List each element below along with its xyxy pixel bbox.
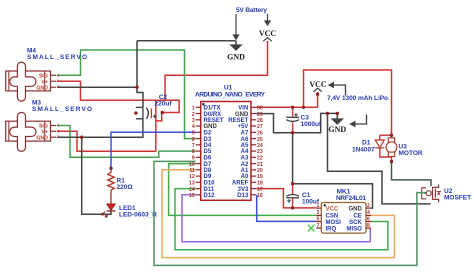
pin 1 VCC [316, 207, 321, 209]
wire black GND from servos up to battery ground [136, 41, 138, 87]
pin 5 MOSI [316, 221, 321, 223]
pin 1 D1/TX [196, 106, 201, 108]
node C2 negative plate [134, 111, 137, 114]
pin 30 VIN [251, 106, 256, 108]
wire black GND trunk to NRF [293, 133, 373, 208]
junction M3 GND / LED ground loop [80, 136, 83, 139]
svg-text:CE: CE [353, 214, 361, 220]
svg-text:13: 13 [189, 181, 195, 187]
pin 19 A0 [251, 175, 256, 177]
svg-text:3: 3 [57, 85, 59, 89]
svg-text:GND: GND [36, 135, 48, 141]
svg-text:VCC: VCC [326, 206, 339, 212]
svg-text:A6: A6 [241, 137, 249, 143]
node R1 top / D2 wire [109, 167, 112, 170]
wire motor to MOSFET drain [392, 162, 432, 187]
svg-text:1N4007: 1N4007 [352, 147, 375, 154]
pin 8 D5 [196, 150, 201, 152]
svg-text:29: 29 [257, 112, 263, 118]
svg-text:MOTOR: MOTOR [399, 150, 423, 157]
svg-text:A4: A4 [241, 149, 249, 155]
svg-text:AREF: AREF [232, 181, 249, 187]
wire dark green MOSFET gate from D7 [154, 161, 426, 265]
svg-text:220uf: 220uf [155, 101, 173, 108]
wire green CSN from D7 [169, 164, 317, 216]
svg-text:23: 23 [257, 149, 263, 155]
wire black MOSFET source to GND [328, 113, 431, 203]
svg-text:26: 26 [257, 131, 263, 137]
VCC supply symbol (battery) [259, 29, 277, 41]
svg-text:5V Battery: 5V Battery [236, 7, 267, 14]
svg-text:A2: A2 [241, 162, 249, 168]
junction GND line / C3 bottom [291, 131, 294, 134]
svg-text:28: 28 [257, 118, 263, 124]
svg-text:15: 15 [189, 193, 195, 199]
pin 2 GND [366, 207, 371, 209]
svg-text:6: 6 [367, 216, 370, 222]
svg-text:1: 1 [57, 124, 59, 128]
svg-text:30: 30 [257, 106, 263, 112]
svg-text:D9: D9 [204, 174, 212, 180]
pin 17 3V3 [251, 188, 256, 190]
wire black arduino GND to battery ground [256, 113, 337, 132]
svg-text:2: 2 [57, 129, 59, 133]
pin 6 SCK [366, 221, 371, 223]
wire black M4 GND [57, 87, 143, 107]
svg-text:SCK: SCK [349, 220, 362, 226]
junction VIN rail / motor riser [302, 106, 305, 109]
svg-text:17: 17 [257, 187, 263, 193]
pin 6 D3 [196, 138, 201, 140]
wire red V+ rail to M4 and down to C2 plus [57, 81, 179, 112]
svg-text:2: 2 [192, 112, 195, 118]
capacitor C3 [286, 107, 322, 132]
svg-text:25: 25 [257, 137, 263, 143]
svg-text:5: 5 [317, 216, 320, 222]
svg-text:1000uf: 1000uf [301, 121, 322, 128]
pin 16 D13 [251, 194, 256, 196]
svg-text:20: 20 [257, 168, 263, 174]
svg-text:1: 1 [317, 203, 320, 209]
svg-text:MOSFET: MOSFET [444, 195, 471, 202]
junction C1 bottom / NRF VCC wire [291, 206, 294, 209]
pin 28 RESET [251, 119, 256, 121]
pin 2 D0/RX [196, 113, 201, 115]
svg-text:8: 8 [192, 149, 195, 155]
svg-text:1: 1 [192, 106, 195, 112]
svg-text:3V3: 3V3 [238, 187, 249, 193]
svg-text:24: 24 [257, 143, 263, 149]
svg-text:A0: A0 [241, 174, 249, 180]
pin 12 D9 [196, 175, 201, 177]
svg-text:D11: D11 [204, 187, 215, 193]
svg-text:D4: D4 [204, 143, 212, 149]
wire green M3 SIG to D5 [57, 126, 196, 158]
svg-text:1: 1 [57, 73, 59, 77]
svg-text:12: 12 [189, 174, 195, 180]
svg-text:D8: D8 [204, 168, 212, 174]
pin 13 D10 [196, 181, 201, 183]
svg-text:A7: A7 [241, 131, 249, 137]
pin 22 A3 [251, 156, 256, 158]
svg-text:D3: D3 [204, 137, 212, 143]
motor U3 [386, 135, 423, 161]
pin 10 D7 [196, 163, 201, 165]
svg-text:10: 10 [189, 162, 195, 168]
svg-text:19: 19 [257, 174, 263, 180]
svg-text:CSN: CSN [326, 214, 339, 220]
svg-text:A3: A3 [241, 156, 249, 162]
wire orange CE from D8 [162, 170, 394, 258]
svg-text:VIN: VIN [238, 106, 248, 112]
svg-text:8: 8 [367, 223, 370, 229]
wire blue MOSI from D13 [257, 195, 317, 222]
pin 26 A7 [251, 131, 256, 133]
svg-text:GND: GND [227, 53, 245, 62]
svg-text:D2: D2 [204, 131, 212, 137]
svg-text:GND: GND [204, 124, 218, 130]
svg-text:14: 14 [189, 187, 195, 193]
pin 5 D2 [196, 131, 201, 133]
svg-text:MISO: MISO [346, 226, 362, 232]
svg-text:SMALL_SERVO: SMALL_SERVO [32, 106, 92, 113]
pin 7 IRQ [316, 227, 321, 229]
junction GND trunk / C1 top [291, 182, 294, 185]
wire black M3 GND to C2 [57, 119, 143, 137]
svg-text:4: 4 [192, 124, 195, 130]
svg-text:U1: U1 [224, 85, 233, 92]
svg-text:ARDUINO_NANO_EVERY: ARDUINO_NANO_EVERY [195, 92, 266, 99]
no-connect X on IRQ [308, 225, 315, 232]
pin 7 D4 [196, 144, 201, 146]
wire red 3V3 to NRF VCC [256, 189, 316, 208]
diode D1 [352, 135, 392, 157]
junction M4 GND / ground riser [135, 86, 138, 89]
pin 20 A1 [251, 169, 256, 171]
svg-text:11: 11 [189, 168, 195, 174]
svg-text:2: 2 [367, 203, 370, 209]
svg-text:3: 3 [57, 135, 59, 139]
pin 3 RESET [196, 119, 201, 121]
svg-text:NRF24L01: NRF24L01 [336, 195, 366, 202]
svg-text:7: 7 [317, 223, 320, 229]
pin 3 CSN [316, 214, 321, 216]
wire green M4 SIG to D3 [57, 50, 196, 139]
wire green SCK from D11 [175, 189, 388, 250]
resistor R1 [108, 168, 133, 204]
junction motor top / diode [390, 134, 393, 137]
wire blue D2 to R1 [111, 132, 196, 168]
svg-text:IRQ: IRQ [326, 226, 337, 232]
wire red motor riser [304, 70, 392, 135]
pin 29 GND [251, 113, 256, 115]
svg-text:9: 9 [192, 156, 195, 162]
svg-text:D6: D6 [204, 156, 212, 162]
pin 21 A2 [251, 163, 256, 165]
svg-text:6: 6 [192, 137, 195, 143]
capacitor C2 [136, 94, 172, 119]
svg-text:GND: GND [235, 112, 249, 118]
annotation arrow to GND [232, 14, 239, 40]
junction VIN rail / C3 top [291, 106, 294, 109]
pin 4 CE [366, 214, 371, 216]
wire black LED ground loop [82, 137, 111, 214]
node VCC motor stub [316, 93, 319, 96]
wire purple MISO from D12 [182, 195, 370, 242]
svg-text:RESET: RESET [204, 118, 224, 124]
svg-text:D13: D13 [237, 193, 249, 199]
annotation arrow to motor GND [349, 115, 366, 128]
svg-text:MOSI: MOSI [326, 220, 342, 226]
wire red M3 V+ branch [57, 113, 162, 152]
svg-text:27: 27 [257, 124, 263, 130]
svg-text:7: 7 [192, 143, 195, 149]
svg-text:21: 21 [257, 162, 263, 168]
svg-text:3: 3 [192, 118, 195, 124]
svg-text:SMALL_SERVO: SMALL_SERVO [27, 54, 87, 61]
svg-text:D12: D12 [204, 193, 216, 199]
pin 15 D12 [196, 194, 201, 196]
svg-text:D7: D7 [204, 162, 212, 168]
pin 27 +5V [251, 125, 256, 127]
pin 23 A4 [251, 150, 256, 152]
svg-text:3: 3 [317, 210, 320, 216]
wire red VIN rail [256, 106, 317, 108]
MOSFET U2 [422, 184, 441, 202]
servo M4 [6, 47, 87, 101]
svg-text:4: 4 [367, 210, 370, 216]
svg-text:D5: D5 [204, 149, 212, 155]
svg-text:GND: GND [36, 85, 48, 91]
svg-text:D1: D1 [362, 140, 371, 147]
svg-text:+5V: +5V [237, 124, 248, 130]
svg-text:7,4V 1300 mAh LiPo: 7,4V 1300 mAh LiPo [327, 95, 388, 102]
annotation arrow to motor VCC [328, 82, 346, 96]
svg-text:D10: D10 [204, 181, 216, 187]
VCC supply symbol (motor battery) [309, 80, 327, 107]
IC U1 ARDUINO_NANO_EVERY [189, 85, 266, 201]
svg-text:D0/RX: D0/RX [204, 112, 222, 118]
node C2 positive plate [161, 111, 164, 114]
pin 8 MISO [366, 227, 371, 229]
capacitor C1 [286, 184, 320, 208]
svg-text:RESET: RESET [228, 118, 248, 124]
module MK1 NRF24L01 [308, 188, 371, 233]
svg-text:18: 18 [257, 181, 263, 187]
svg-text:16: 16 [257, 193, 263, 199]
pin 9 D6 [196, 156, 201, 158]
svg-text:GND: GND [328, 125, 346, 134]
servo M3 [6, 99, 92, 151]
junction GND rail / ground symbol [336, 112, 339, 115]
svg-text:220Ω: 220Ω [117, 184, 133, 191]
pin 24 A5 [251, 144, 256, 146]
pin 14 D11 [196, 188, 201, 190]
LED LED1 [102, 204, 158, 219]
ground (battery top) [137, 41, 245, 62]
svg-text:VCC: VCC [259, 29, 277, 38]
pin 25 A6 [251, 138, 256, 140]
ground (motor battery) [328, 113, 346, 133]
junction GND rail / MOSFET source wire [326, 112, 329, 115]
svg-text:22: 22 [257, 156, 263, 162]
svg-text:2: 2 [57, 79, 59, 83]
junction motor bottom / diode / drain [390, 160, 393, 163]
pin 11 D8 [196, 169, 201, 171]
annotation arrow to VCC [264, 14, 271, 26]
pin 18 AREF [251, 181, 256, 183]
svg-text:A5: A5 [241, 143, 249, 149]
svg-text:A1: A1 [241, 168, 249, 174]
svg-text:GND: GND [348, 206, 362, 212]
svg-text:D1/TX: D1/TX [204, 106, 221, 112]
wire red VCC drop from battery symbol [165, 41, 268, 100]
svg-text:LED-0603_R: LED-0603_R [119, 212, 157, 219]
svg-text:5: 5 [192, 131, 195, 137]
pin 4 GND [196, 125, 201, 127]
wire red C2 riser to top rail [155, 100, 157, 121]
